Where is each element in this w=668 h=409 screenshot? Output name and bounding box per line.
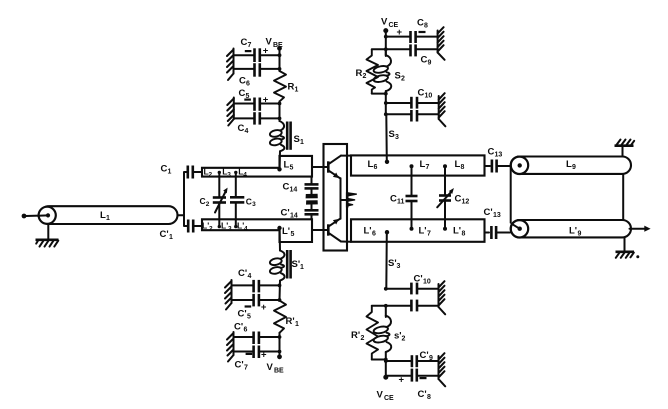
wire L1 to C1/C'1 junction xyxy=(178,214,185,216)
svg-text:BE: BE xyxy=(274,368,284,375)
svg-text:V: V xyxy=(377,390,384,401)
svg-text:6: 6 xyxy=(374,164,378,171)
capacitor C'4 xyxy=(232,268,280,292)
svg-text:CE: CE xyxy=(384,395,394,402)
node R2 bottom xyxy=(384,92,388,96)
svg-text:8: 8 xyxy=(427,394,431,401)
svg-text:7: 7 xyxy=(427,231,431,238)
svg-text:6: 6 xyxy=(246,81,250,88)
capacitor C'10 (lower) xyxy=(386,300,439,312)
output wire with arrow xyxy=(630,226,651,232)
svg-text:L': L' xyxy=(282,226,290,237)
capacitor C3 xyxy=(230,197,256,209)
svg-text:C: C xyxy=(161,164,168,175)
capacitor C10 (lower) xyxy=(386,110,439,122)
svg-text:6: 6 xyxy=(244,327,248,334)
svg-text:C': C' xyxy=(418,389,427,400)
svg-text:+: + xyxy=(263,95,269,106)
coax balun bottom end (L'9 left end) xyxy=(511,220,528,237)
svg-text:2: 2 xyxy=(363,73,367,80)
capacitor C'1 xyxy=(160,220,194,242)
svg-text:2: 2 xyxy=(206,201,210,208)
node C9 rail / R2 top xyxy=(384,47,388,51)
label VBE (top) xyxy=(266,37,284,50)
svg-text:5: 5 xyxy=(291,231,295,238)
svg-text:4: 4 xyxy=(248,273,252,280)
label VCE (top) xyxy=(381,17,399,30)
svg-text:+: + xyxy=(397,27,403,38)
wire C12 down to L'8 tap xyxy=(444,201,446,228)
microstrip line L'6 L'7 L'8 (lower output line) xyxy=(351,219,485,242)
svg-text:BE: BE xyxy=(273,42,283,49)
node S'3 tap on L'6 xyxy=(385,230,389,234)
svg-text:S: S xyxy=(395,71,401,82)
node: L2/L3 tap xyxy=(218,171,221,174)
wire junction up to C1 xyxy=(184,172,187,215)
svg-text:C: C xyxy=(417,18,424,29)
label S3 xyxy=(389,129,400,141)
ground (C'9/C'8) xyxy=(439,353,446,386)
svg-text:R': R' xyxy=(286,316,295,327)
svg-text:13: 13 xyxy=(493,212,501,219)
node S3 tap on L6 xyxy=(385,160,389,164)
svg-text:3: 3 xyxy=(252,201,256,208)
node: S1 tap on L5 xyxy=(277,167,281,171)
svg-text:14: 14 xyxy=(290,187,298,194)
svg-text:C: C xyxy=(239,76,246,87)
wire C13 to balun top xyxy=(498,165,511,167)
svg-text:5: 5 xyxy=(290,165,294,172)
wire S2 to C10 rails xyxy=(385,91,387,114)
svg-text:S: S xyxy=(389,129,395,140)
svg-text:C': C' xyxy=(281,208,290,219)
svg-text:6: 6 xyxy=(372,231,376,238)
microstrip line L'2 L'3 L'4 with L'5 (lower input line) xyxy=(202,219,312,242)
node C7 rail xyxy=(278,53,282,57)
node C'10 rails xyxy=(384,287,388,291)
node R'2 bottom xyxy=(384,358,388,362)
svg-text:C: C xyxy=(283,182,290,193)
svg-text:L': L' xyxy=(419,226,427,237)
transistor Q1 (upper) xyxy=(328,156,341,200)
svg-text:2: 2 xyxy=(209,226,213,233)
svg-text:3: 3 xyxy=(395,134,399,141)
svg-text:11: 11 xyxy=(397,199,405,206)
wire emitters to flange xyxy=(341,199,347,201)
svg-text:C': C' xyxy=(420,350,429,361)
wire L5 bottom to C14 xyxy=(311,177,313,184)
svg-text:10: 10 xyxy=(425,93,433,100)
choke S1 xyxy=(269,121,304,151)
node C8 rail xyxy=(384,35,388,39)
svg-text:C': C' xyxy=(238,309,247,320)
node C'5 rail xyxy=(278,298,282,302)
wire S'2 to C'9 rail xyxy=(385,352,387,377)
svg-text:4: 4 xyxy=(244,226,248,233)
node: L'2/L'3 tap xyxy=(218,225,221,228)
svg-text:1: 1 xyxy=(295,321,299,328)
svg-text:13: 13 xyxy=(495,152,503,159)
node: S'1 tap on L'5 xyxy=(277,226,281,230)
wire L9 right end to ground xyxy=(622,146,624,156)
capacitor C13 xyxy=(488,147,503,173)
emitter flange ground symbol xyxy=(347,192,357,207)
svg-text:9: 9 xyxy=(428,60,432,67)
transistor package outline xyxy=(324,144,348,251)
capacitor C'5 xyxy=(232,294,280,321)
svg-text:C': C' xyxy=(414,274,423,285)
ground (C7/C6) xyxy=(227,49,234,81)
wire L'5 tap to S'1 xyxy=(279,229,281,251)
resistor R2 xyxy=(356,49,386,93)
wire C1 to line L2 xyxy=(194,171,202,173)
node C'7 rail xyxy=(278,350,282,354)
capacitor C'8 xyxy=(386,369,439,401)
svg-text:4: 4 xyxy=(245,128,249,135)
emitter stud mark (lower) xyxy=(306,200,318,204)
wire C'13 to balun bottom xyxy=(497,232,510,234)
resistor R'1 xyxy=(274,301,299,333)
svg-text:1: 1 xyxy=(295,87,299,94)
wire L'9 right end to ground xyxy=(624,237,626,251)
emitter stud mark (upper) xyxy=(306,194,318,199)
svg-text:8: 8 xyxy=(461,164,465,171)
node VCE (top) xyxy=(383,28,388,33)
svg-text:C: C xyxy=(421,55,428,66)
node C'6 rail xyxy=(278,335,282,339)
capacitor C5 xyxy=(234,88,280,111)
svg-text:C: C xyxy=(455,194,462,205)
svg-text:7: 7 xyxy=(426,164,430,171)
node VBE (bottom) xyxy=(277,354,282,359)
svg-text:C: C xyxy=(390,194,397,205)
svg-text:C: C xyxy=(241,37,248,48)
wire Q1 collector to L6 xyxy=(341,155,351,157)
capacitor C11 xyxy=(390,194,418,206)
wire input to coax center xyxy=(26,214,48,217)
capacitor C'13 xyxy=(484,207,501,239)
capacitor C14 xyxy=(283,182,319,194)
capacitor C6 xyxy=(234,63,280,87)
svg-text:1: 1 xyxy=(106,215,110,222)
resistor R'2 xyxy=(351,306,386,360)
node C12 tap on L8 xyxy=(443,164,447,168)
svg-text:3: 3 xyxy=(228,226,232,233)
input terminal dot xyxy=(22,214,27,219)
wire S'1 to C'4 rail xyxy=(279,281,282,300)
node C'9 rail xyxy=(384,359,388,363)
label VBE (bottom) xyxy=(267,362,285,375)
wire L'5 to Q2 base xyxy=(312,229,327,231)
svg-text:2: 2 xyxy=(361,335,365,342)
wire L2/L3 tap down xyxy=(218,173,220,197)
svg-text:C': C' xyxy=(234,322,243,333)
capacitor C10 (upper) xyxy=(386,88,439,109)
svg-text:+: + xyxy=(263,46,269,57)
wire S1 to L5 tap xyxy=(279,151,281,168)
wire C11 down to L'7 tap xyxy=(411,202,413,228)
svg-text:C': C' xyxy=(160,229,169,240)
wire L8 to C13 xyxy=(485,165,491,167)
svg-text:C: C xyxy=(418,88,425,99)
svg-text:C: C xyxy=(246,197,252,207)
coax balun top end (L9 left end) xyxy=(511,157,528,174)
transmission line L'9 xyxy=(511,220,631,238)
node C5 rail xyxy=(278,102,282,106)
svg-text:R: R xyxy=(288,82,295,93)
ground (above L9) xyxy=(615,140,635,146)
wire L3/L4 tap down xyxy=(235,173,237,197)
wire C3 down to L'3/L'4 tap xyxy=(235,203,237,226)
resistor R1 xyxy=(274,71,299,101)
wire L'8 to C'13 xyxy=(485,232,490,234)
svg-text:7: 7 xyxy=(248,42,252,49)
svg-text:9: 9 xyxy=(572,164,576,171)
wire C2 down to L'2/L'3 tap xyxy=(218,203,220,226)
svg-text:8: 8 xyxy=(424,23,428,30)
wire L8 tap down to C12 xyxy=(444,167,446,195)
ground (C8/C9) xyxy=(438,27,445,60)
capacitor C7 xyxy=(234,37,280,62)
choke S2 xyxy=(373,49,405,91)
svg-text:12: 12 xyxy=(462,199,470,206)
svg-text:V: V xyxy=(381,17,388,28)
capacitor C'9 xyxy=(386,350,439,367)
svg-text:1: 1 xyxy=(169,234,173,241)
transistor Q2 (lower) xyxy=(328,200,341,242)
capacitor C'10 (upper) xyxy=(386,274,439,295)
svg-text:S': S' xyxy=(388,258,397,269)
wire C'14 to L'5 top xyxy=(311,214,313,219)
ground (C5/C4) xyxy=(227,98,234,126)
node C6 rail xyxy=(278,67,282,71)
capacitor C1 xyxy=(161,164,193,179)
ground (below L1 input) xyxy=(36,240,59,247)
wire L5 to Q1 base xyxy=(312,166,327,168)
svg-text:C': C' xyxy=(238,268,247,279)
svg-text:S: S xyxy=(294,134,300,145)
label VCE (bottom) xyxy=(377,390,395,403)
wire C14 to emitter marks xyxy=(311,188,313,194)
svg-text:1: 1 xyxy=(168,169,172,176)
node VBE (top) xyxy=(277,46,282,51)
svg-text:2: 2 xyxy=(209,172,213,179)
svg-text:+: + xyxy=(261,302,267,313)
wire emitter marks to C'14 xyxy=(311,205,313,210)
choke S'2 xyxy=(373,306,405,352)
variable capacitor C12 xyxy=(437,188,469,207)
wire VCE bus (top) xyxy=(385,31,387,55)
wire L1 shield to ground xyxy=(47,224,49,239)
svg-text:+: + xyxy=(261,350,267,361)
svg-text:L': L' xyxy=(453,226,461,237)
capacitor C4 xyxy=(234,112,280,135)
svg-text:L': L' xyxy=(364,226,372,237)
node C'4 rail xyxy=(278,284,282,288)
node C11 tap on L'7 xyxy=(410,227,414,231)
node C12 tap on L'8 xyxy=(443,227,447,231)
svg-text:5: 5 xyxy=(247,314,251,321)
svg-text:V: V xyxy=(267,362,274,373)
node: L'3/L'4 tap xyxy=(234,225,237,228)
svg-text:7: 7 xyxy=(244,365,248,372)
svg-text:C: C xyxy=(488,147,495,158)
svg-text:1: 1 xyxy=(300,264,304,271)
svg-text:3: 3 xyxy=(227,172,231,179)
node: L3/L4 tap xyxy=(234,171,237,174)
svg-text:L': L' xyxy=(569,226,577,237)
svg-text:9: 9 xyxy=(429,355,433,362)
wire VBE bus (top) xyxy=(279,48,281,71)
microstrip line L2 L3 L4 with L5 (upper input line) xyxy=(202,156,312,179)
svg-text:C': C' xyxy=(235,360,244,371)
svg-text:2: 2 xyxy=(401,76,405,83)
wire L9 right end down to L'9 right end xyxy=(622,174,624,220)
wire R1 to C5/C4 rails xyxy=(279,101,281,121)
ground (C'6/C'7) xyxy=(227,332,234,362)
wire junction down to C'1 xyxy=(184,215,187,226)
svg-text:9: 9 xyxy=(578,231,582,238)
transmission line L1 xyxy=(40,206,178,224)
capacitor C'7 xyxy=(234,346,280,372)
node C11 tap on L7 xyxy=(410,164,414,168)
node C10 rails xyxy=(384,101,388,105)
wire Q2 collector to L'6 xyxy=(341,241,351,243)
svg-text:s': s' xyxy=(394,331,402,342)
svg-text:3: 3 xyxy=(397,263,401,270)
ground (below L'9) xyxy=(616,252,640,258)
capacitor C'6 xyxy=(234,322,280,345)
ground (C'4/C'5) xyxy=(225,280,232,310)
capacitor C'14 xyxy=(281,208,319,220)
capacitor C9 xyxy=(386,44,438,66)
capacitor C8 xyxy=(386,18,438,44)
node VCE (bottom) xyxy=(383,375,388,380)
wire C'1 to line L'2 xyxy=(194,225,202,227)
svg-text:C: C xyxy=(200,196,206,206)
wire balun interconnect (outer to inner) xyxy=(511,166,519,228)
node C4 rail xyxy=(278,117,282,121)
svg-text:1: 1 xyxy=(300,139,304,146)
ground (C'10) xyxy=(439,281,446,314)
svg-text:C: C xyxy=(238,123,245,134)
wire S'3 (L'6 to bus) xyxy=(385,233,388,289)
label S'3 xyxy=(388,258,401,270)
svg-text:R': R' xyxy=(351,330,360,341)
svg-text:C: C xyxy=(239,88,246,99)
variable capacitor C2 xyxy=(200,188,228,213)
wire R'1 to C'6 rail xyxy=(279,333,281,357)
microstrip line L6 L7 L8 (upper output line) xyxy=(351,155,485,175)
svg-text:14: 14 xyxy=(290,213,298,220)
transmission line L9 xyxy=(511,157,631,174)
svg-text:R: R xyxy=(356,68,363,79)
wire L7 tap down to C11 xyxy=(411,167,413,195)
svg-text:10: 10 xyxy=(423,279,431,286)
coax input connector (L1 left end) xyxy=(38,207,56,224)
svg-text:8: 8 xyxy=(462,231,466,238)
wire S3 (bus to L6) xyxy=(385,114,388,161)
svg-text:2: 2 xyxy=(402,336,406,343)
svg-text:4: 4 xyxy=(243,172,247,179)
ground (C10) xyxy=(439,93,446,126)
svg-text:S': S' xyxy=(292,259,301,270)
choke S'1 xyxy=(269,250,304,281)
svg-text:C': C' xyxy=(484,207,493,218)
svg-text:+: + xyxy=(399,375,405,386)
